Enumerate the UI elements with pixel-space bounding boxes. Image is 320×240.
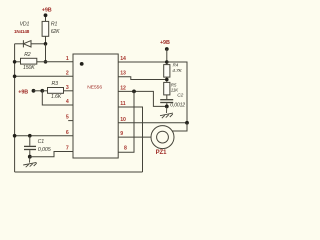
op IC body NE556 xyxy=(73,54,118,158)
svg-text:+9B: +9B xyxy=(42,7,52,13)
resistor R4 xyxy=(164,65,170,78)
wire pin 7 to C1 bottom xyxy=(30,152,73,157)
node +9B top terminal xyxy=(44,13,48,21)
node pin2 rail junction xyxy=(13,75,17,79)
resistor R5 xyxy=(164,82,170,95)
wire pin 4 from +9B node xyxy=(42,91,73,105)
wire pin 10 xyxy=(118,122,187,124)
capacitor C2 xyxy=(160,95,173,107)
svg-text:R3: R3 xyxy=(52,81,59,87)
svg-text:C2: C2 xyxy=(177,93,183,99)
svg-text:0,0012: 0,0012 xyxy=(170,103,185,109)
svg-text:3: 3 xyxy=(66,85,69,91)
wire pin 2 xyxy=(15,75,73,77)
node C2 bottom junction xyxy=(165,105,169,109)
resistor R3 xyxy=(42,88,73,94)
node C1 bottom junction xyxy=(28,155,32,159)
wire pin 12 to C2 bottom xyxy=(118,91,167,106)
node IC pin1 indicator dot xyxy=(80,62,84,66)
ground below C2 xyxy=(160,106,173,118)
buzzer PZ1 xyxy=(151,126,174,149)
wire pin 14 xyxy=(118,61,167,63)
svg-text:R2: R2 xyxy=(24,52,31,58)
wire pin12 to pin8 tie xyxy=(118,91,134,152)
resistor R2 xyxy=(15,58,46,64)
svg-text:1: 1 xyxy=(66,56,69,62)
wire buzzer right lead xyxy=(172,123,187,131)
node pin1 junction xyxy=(44,60,48,64)
node pin6 rail junction xyxy=(13,134,17,138)
svg-text:150K: 150K xyxy=(23,65,35,71)
node pin12 junction xyxy=(132,90,136,94)
node R2 left rail junction xyxy=(13,60,17,64)
node pin10 junction xyxy=(185,121,189,125)
wire pin 5 stub xyxy=(68,120,73,122)
wire bottom rail xyxy=(15,171,143,173)
svg-text:11: 11 xyxy=(120,101,125,107)
capacitor C1 xyxy=(24,136,36,157)
diode VD1 xyxy=(15,40,46,47)
svg-text:9: 9 xyxy=(120,131,123,137)
wire pin 11 to bottom rail xyxy=(118,107,142,172)
svg-text:5: 5 xyxy=(66,115,69,121)
svg-text:NE556: NE556 xyxy=(87,85,102,91)
svg-text:7: 7 xyxy=(66,146,69,152)
svg-text:VD1: VD1 xyxy=(20,21,30,27)
wire pin 6 xyxy=(15,135,73,137)
svg-text:0,005: 0,005 xyxy=(38,147,52,153)
ground below C1 xyxy=(23,157,37,168)
node +9B mid terminal xyxy=(32,89,45,93)
svg-text:C1: C1 xyxy=(38,139,45,145)
wire R1 bottom to diode node xyxy=(45,36,47,44)
svg-text:1.6K: 1.6K xyxy=(51,94,62,100)
wire pin 1 xyxy=(46,61,74,63)
wire +9B node to right vertical xyxy=(167,62,187,123)
svg-text:PZ1: PZ1 xyxy=(156,150,168,156)
svg-text:R1: R1 xyxy=(51,22,58,28)
svg-text:12: 12 xyxy=(120,86,126,92)
svg-text:4: 4 xyxy=(66,99,69,105)
wire pin 9 to buzzer xyxy=(118,136,151,138)
svg-text:6: 6 xyxy=(66,130,69,136)
wire pin 13 xyxy=(118,77,167,80)
node R4/R5 junction xyxy=(165,77,169,82)
svg-text:2: 2 xyxy=(66,70,69,76)
wire diode node down to pin1 row xyxy=(45,44,47,62)
svg-text:62K: 62K xyxy=(51,29,60,35)
wire left rail xyxy=(14,44,16,172)
svg-text:1N4148: 1N4148 xyxy=(14,29,30,34)
svg-text:+9B: +9B xyxy=(160,40,170,46)
svg-text:R4: R4 xyxy=(173,62,179,67)
svg-text:11K: 11K xyxy=(171,87,179,92)
node C1 top junction xyxy=(28,134,32,138)
node diode/R1 junction xyxy=(44,42,48,46)
resistor R1 xyxy=(42,21,49,36)
svg-text:4.7K: 4.7K xyxy=(172,68,182,74)
svg-text:14: 14 xyxy=(120,56,126,62)
svg-text:+9B: +9B xyxy=(18,90,28,96)
node +9B right terminal xyxy=(165,47,169,65)
svg-text:8: 8 xyxy=(124,146,127,152)
svg-text:10: 10 xyxy=(120,117,126,123)
svg-text:13: 13 xyxy=(120,71,126,77)
